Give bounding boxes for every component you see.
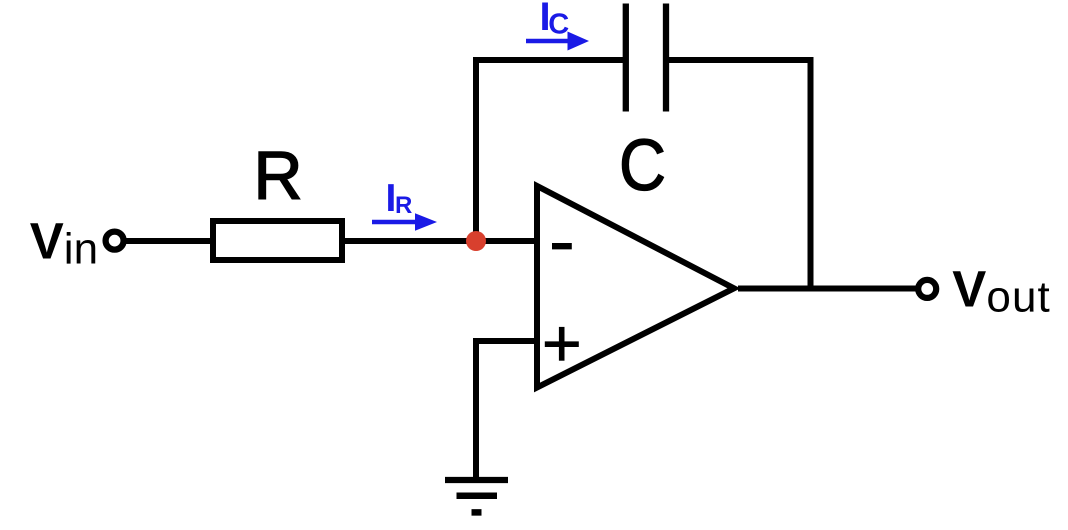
wire: input terminal to resistor (126, 238, 214, 244)
wire: right feedback vertical down to output (808, 57, 814, 288)
wire: top feedback, right segment from capacitor (665, 57, 814, 63)
svg-text:R: R (395, 192, 412, 219)
ground (445, 477, 508, 483)
svg-text:V: V (30, 213, 64, 270)
node junction (red dot) (466, 231, 486, 251)
svg-text:C: C (619, 126, 666, 206)
op-amp inverting input (-) (552, 243, 572, 249)
svg-text:out: out (986, 273, 1050, 322)
wire: non-inverting input vertical to ground (473, 338, 479, 480)
op-amp U1 (triangle body) (537, 186, 734, 388)
resistor R (213, 221, 342, 260)
wire: summing node to op-amp inverting input (476, 238, 537, 244)
svg-text:R: R (253, 138, 302, 214)
wire: op-amp output to output terminal (738, 286, 916, 292)
svg-text:C: C (548, 9, 569, 41)
wire: top feedback, left segment to capacitor (473, 57, 626, 63)
wire: non-inverting input horizontal (473, 338, 537, 344)
wire: feedback vertical (node up to capacitor branch) (473, 57, 479, 241)
output terminal (open circle) (918, 280, 936, 298)
current arrow IR (372, 213, 437, 231)
svg-text:V: V (952, 261, 986, 318)
op-amp non-inverting input (+) (545, 341, 579, 347)
current arrow IC (526, 32, 589, 51)
wire: resistor to summing node (342, 238, 476, 244)
svg-text:in: in (64, 225, 98, 274)
capacitor C (right plate) (663, 4, 669, 112)
input terminal (open circle) (106, 232, 124, 250)
capacitor C (left plate) (623, 4, 629, 112)
